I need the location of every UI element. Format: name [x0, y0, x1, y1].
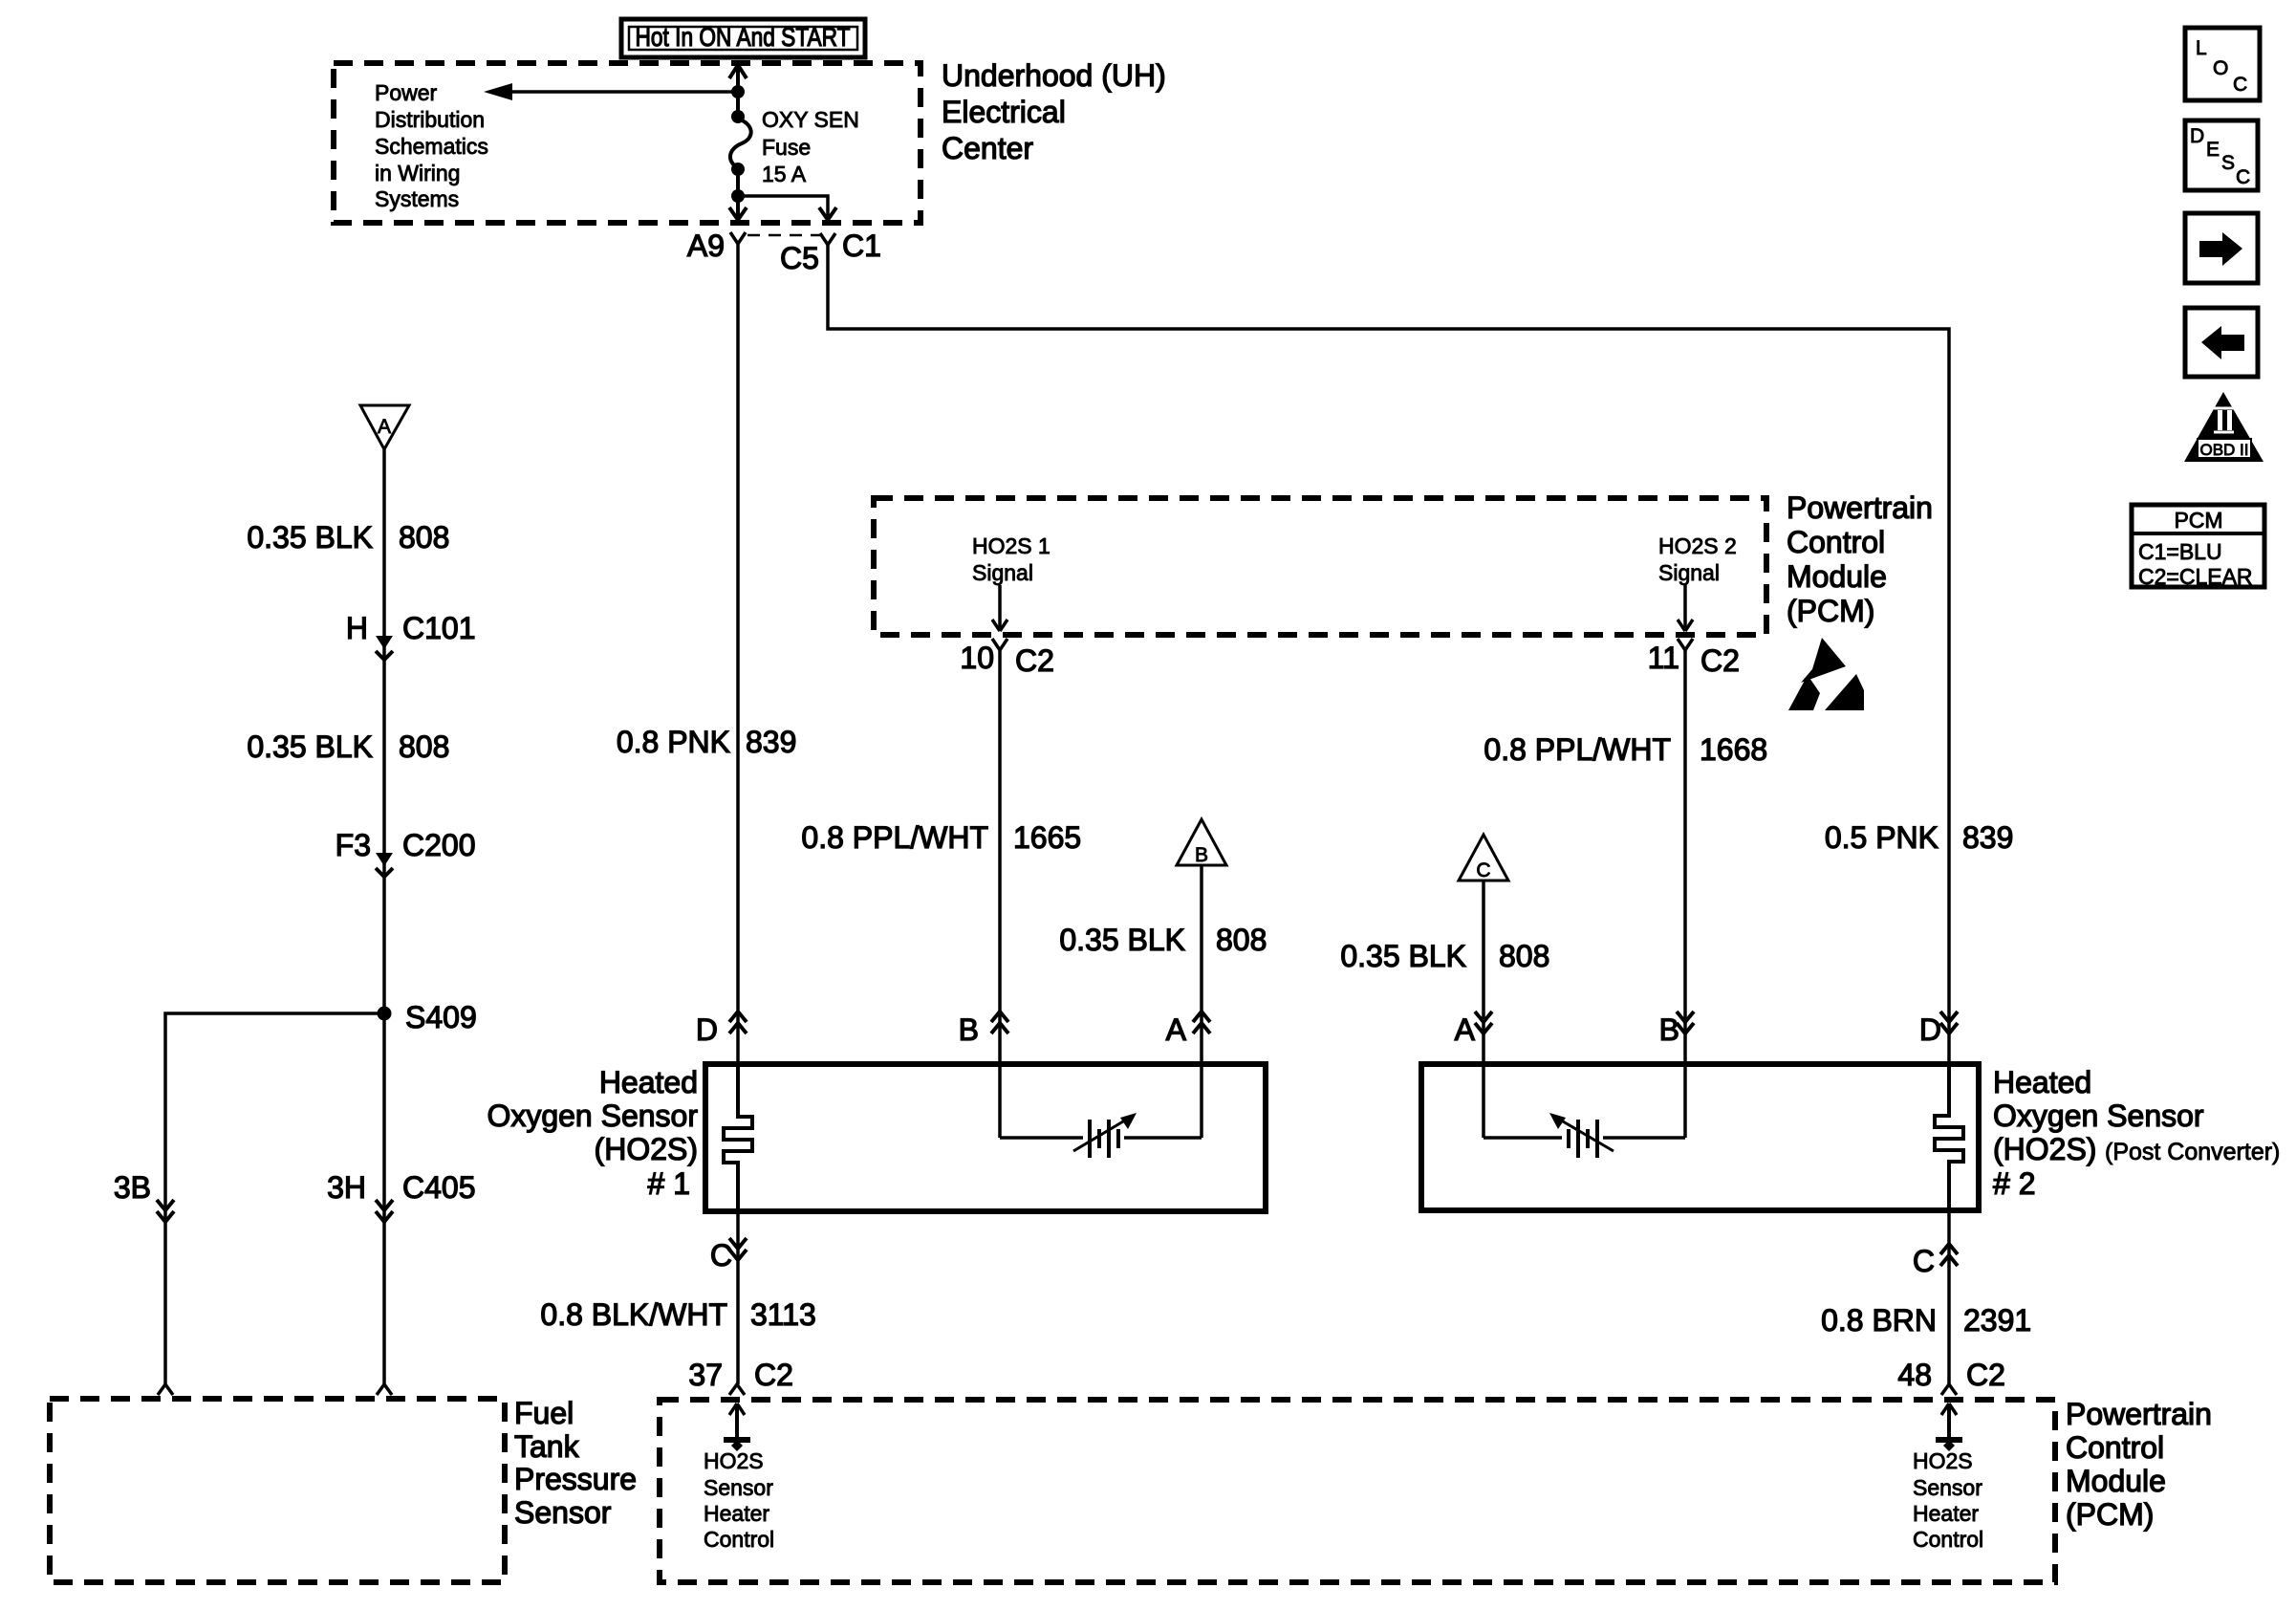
svg-text:C: C — [710, 1238, 732, 1273]
connector C1 (Y symbol) — [820, 233, 835, 245]
svg-text:B: B — [959, 1012, 979, 1047]
svg-text:Sensor: Sensor — [704, 1475, 773, 1500]
PCM internal: HO2S heater control driver (left) — [724, 1403, 750, 1451]
svg-text:OXY SEN: OXY SEN — [762, 107, 859, 132]
svg-text:C: C — [1913, 1244, 1935, 1278]
svg-text:Heated: Heated — [1993, 1065, 2091, 1099]
label: Powertrain Control Module (PCM) top right — [1787, 490, 1933, 628]
sidebar icon: LOC box — [2185, 28, 2260, 100]
heater element in HO2S#2 — [1935, 1064, 1963, 1210]
svg-text:Control: Control — [2066, 1430, 2164, 1465]
svg-text:L: L — [2196, 37, 2207, 59]
svg-text:Control: Control — [704, 1527, 774, 1552]
Powertrain Control Module (PCM) top dashed box — [874, 498, 1766, 635]
ESD sensitive device warning symbol — [1788, 638, 1864, 710]
svg-text:Pressure: Pressure — [514, 1462, 637, 1496]
svg-text:C101: C101 — [402, 611, 476, 645]
svg-text:Oxygen Sensor: Oxygen Sensor — [487, 1099, 698, 1133]
svg-text:A: A — [1166, 1012, 1187, 1047]
svg-text:(Post Converter): (Post Converter) — [2105, 1139, 2280, 1165]
svg-text:C1=BLU: C1=BLU — [2138, 539, 2222, 564]
svg-text:37: 37 — [688, 1358, 723, 1392]
svg-text:1665: 1665 — [1013, 820, 1081, 855]
svg-text:C: C — [2233, 74, 2247, 96]
off-page triangle C — [1459, 835, 1508, 881]
svg-text:Heater: Heater — [704, 1501, 769, 1526]
svg-text:48: 48 — [1897, 1358, 1932, 1392]
svg-text:Control: Control — [1787, 525, 1885, 559]
splice S409 — [378, 1000, 477, 1034]
label: Heated Oxygen Sensor (HO2S) (Post Converter) # 2 — [1993, 1065, 2280, 1201]
arrow: HO2S 2 Signal down — [1683, 585, 1687, 628]
svg-text:Fuel: Fuel — [514, 1396, 574, 1430]
svg-text:C5: C5 — [780, 241, 819, 275]
svg-text:0.35 BLK: 0.35 BLK — [247, 520, 373, 555]
svg-text:B: B — [1659, 1012, 1679, 1047]
svg-text:2391: 2391 — [1963, 1303, 2031, 1338]
label: 0.8 PPL/WHT 1668 — [1484, 732, 1767, 767]
label: Fuel Tank Pressure Sensor — [514, 1396, 637, 1530]
svg-text:Fuse: Fuse — [762, 135, 811, 160]
svg-text:S409: S409 — [405, 1000, 477, 1034]
label: 0.5 PNK 839 — [1825, 820, 2014, 855]
svg-text:C2: C2 — [754, 1358, 793, 1392]
arrowhead down at C1 — [819, 207, 836, 220]
svg-text:808: 808 — [1216, 923, 1267, 957]
sidebar icon: DESC box — [2185, 120, 2258, 190]
svg-text:S: S — [2221, 152, 2235, 174]
svg-text:Sensor: Sensor — [514, 1495, 612, 1530]
svg-text:0.8 PPL/WHT: 0.8 PPL/WHT — [1484, 732, 1671, 767]
label: Heated Oxygen Sensor (HO2S) # 1 — [487, 1065, 698, 1201]
connector F3 C200 (inline arrow) — [336, 828, 476, 877]
svg-text:Heated: Heated — [599, 1065, 698, 1099]
svg-text:C: C — [2236, 166, 2250, 188]
svg-text:HO2S 1: HO2S 1 — [972, 533, 1051, 558]
pin A chevrons (HO2S#2) — [1455, 1012, 1492, 1047]
heater element in HO2S#1 — [724, 1064, 752, 1211]
svg-text:3H: 3H — [327, 1170, 366, 1205]
label: 0.35 BLK 808 (upper left) — [247, 520, 449, 555]
label: HO2S Sensor Heater Control (left) — [704, 1448, 774, 1552]
arrowhead up at UH box top — [729, 65, 747, 78]
wire: feed from Hot In ON And START into UHEC — [736, 65, 740, 116]
label: HO2S 2 Signal — [1658, 533, 1737, 585]
svg-text:839: 839 — [746, 725, 796, 759]
svg-text:PCM: PCM — [2174, 508, 2222, 533]
svg-text:HO2S: HO2S — [1913, 1448, 1973, 1473]
svg-text:Power: Power — [375, 80, 438, 105]
svg-text:B: B — [1195, 844, 1208, 866]
svg-text:0.5 PNK: 0.5 PNK — [1825, 820, 1939, 855]
svg-text:0.35 BLK: 0.35 BLK — [1340, 939, 1466, 973]
svg-text:in Wiring: in Wiring — [375, 161, 460, 185]
pin B chevrons (HO2S#2) — [1659, 1012, 1694, 1047]
svg-text:D: D — [1919, 1012, 1941, 1047]
svg-text:15 A: 15 A — [762, 162, 807, 186]
label: HO2S Sensor Heater Control (right) — [1913, 1448, 1983, 1552]
svg-text:HO2S: HO2S — [704, 1448, 764, 1473]
arrow: HO2S 1 Signal down — [998, 585, 1002, 628]
svg-text:0.8 BRN: 0.8 BRN — [1821, 1303, 1937, 1338]
pin 11 C2 (Y symbol) — [1678, 639, 1693, 650]
wire 1668 PPL/WHT: pin 11 down to HO2S#2 pin B — [1683, 650, 1687, 1138]
arrowhead down at A9 — [729, 207, 747, 220]
svg-text:C200: C200 — [402, 828, 476, 862]
svg-text:O: O — [2213, 57, 2228, 79]
svg-text:(PCM): (PCM) — [2066, 1497, 2154, 1532]
svg-text:D: D — [696, 1012, 718, 1047]
svg-text:Tank: Tank — [514, 1429, 580, 1464]
svg-text:C2=CLEAR: C2=CLEAR — [2138, 564, 2253, 589]
connector A9 (Y symbol) — [730, 232, 746, 244]
PCM internal: HO2S heater control driver (right) — [1936, 1403, 1962, 1451]
svg-text:Underhood (UH): Underhood (UH) — [942, 58, 1166, 93]
svg-text:E: E — [2206, 139, 2220, 161]
wire end Y at fuel tank (right) — [377, 1384, 392, 1395]
svg-text:D: D — [2190, 125, 2204, 147]
pin C chevrons (HO2S#2, up) — [1913, 1244, 1958, 1278]
svg-text:808: 808 — [1499, 939, 1549, 973]
svg-text:C2: C2 — [1015, 643, 1054, 678]
svg-text:3B: 3B — [114, 1170, 151, 1205]
svg-text:0.8 BLK/WHT: 0.8 BLK/WHT — [540, 1297, 727, 1332]
svg-text:# 1: # 1 — [648, 1166, 690, 1201]
wire 839 PNK: C1 right and down to HO2S#2 pin D — [828, 245, 1949, 1064]
wire 3113 BLK/WHT: HO2S#1 pin C down to PCM pin 37 — [736, 1211, 740, 1384]
svg-text:H: H — [346, 611, 368, 645]
svg-text:Heater: Heater — [1913, 1501, 1979, 1526]
pin A chevrons (HO2S#1) — [1166, 1012, 1210, 1047]
svg-text:Powertrain: Powertrain — [1787, 490, 1933, 525]
svg-text:3113: 3113 — [750, 1297, 816, 1332]
label: 0.8 BRN 2391 — [1821, 1303, 2031, 1338]
pin D chevrons (HO2S#1) — [696, 1012, 747, 1047]
label: OXY SEN Fuse 15 A — [762, 107, 859, 186]
svg-text:808: 808 — [399, 520, 449, 555]
wire: branch to Power Distribution (arrow left) — [510, 90, 738, 94]
label: 0.35 BLK 808 (center-left) — [1059, 923, 1267, 957]
junction dot fuse output branch — [731, 189, 745, 203]
svg-text:C405: C405 — [402, 1170, 476, 1205]
svg-text:10: 10 — [960, 641, 994, 675]
svg-text:A: A — [1455, 1012, 1476, 1047]
svg-text:839: 839 — [1962, 820, 2013, 855]
sense element (variable source) in HO2S#1 — [1000, 1113, 1202, 1158]
svg-text:A9: A9 — [687, 228, 725, 263]
wire 2391 BRN: HO2S#2 pin C down to PCM pin 48 — [1947, 1210, 1951, 1384]
svg-text:Distribution: Distribution — [375, 107, 485, 132]
svg-text:0.35 BLK: 0.35 BLK — [1059, 923, 1185, 957]
pin B chevrons (HO2S#1) — [959, 1012, 1008, 1047]
svg-text:(HO2S): (HO2S) — [595, 1132, 698, 1166]
wire 808 BLK: triangle C down to HO2S#2 pin A — [1482, 881, 1485, 1138]
wire 1665 PPL/WHT: pin 10 down to HO2S#1 pin B — [998, 650, 1002, 1138]
arrowhead left to power distribution — [484, 83, 512, 100]
connector 3H C405 chevrons — [327, 1170, 475, 1222]
svg-text:C2: C2 — [1700, 643, 1740, 678]
svg-text:(HO2S): (HO2S) — [1993, 1132, 2096, 1166]
sidebar icon: arrow left box — [2185, 308, 2258, 377]
svg-text:HO2S 2: HO2S 2 — [1658, 533, 1737, 558]
wire: fuse output down — [736, 169, 740, 218]
svg-text:Schematics: Schematics — [375, 134, 488, 159]
wire 808 BLK: triangle B down to HO2S#1 pin A — [1200, 865, 1203, 1138]
connector C5 dashed line — [747, 234, 820, 237]
label: Powertrain Control Module (PCM) bottom right — [2066, 1397, 2212, 1532]
pin 10 C2 (Y symbol) — [992, 639, 1007, 650]
sidebar: PCM connector legend table — [2132, 505, 2264, 589]
label: HO2S 1 Signal — [972, 533, 1051, 585]
pin 3B chevrons — [114, 1170, 174, 1222]
svg-text:Electrical: Electrical — [942, 95, 1066, 129]
svg-text:Powertrain: Powertrain — [2066, 1397, 2212, 1431]
svg-text:Signal: Signal — [1658, 560, 1720, 585]
connector H C101 (inline arrow) — [346, 611, 476, 660]
svg-text:Signal: Signal — [972, 560, 1033, 585]
note: Power Distribution Schematics in Wiring Systems — [375, 80, 488, 211]
pin 37 C2 (Y symbol) — [688, 1358, 793, 1395]
power feed box "Hot In ON And START" — [621, 19, 865, 57]
wire 839 PNK: A9 down to HO2S#1 pin D — [736, 244, 740, 1064]
svg-text:C1: C1 — [842, 228, 881, 263]
svg-text:C2: C2 — [1966, 1358, 2005, 1392]
svg-text:1668: 1668 — [1700, 732, 1767, 767]
junction dot at branch — [731, 85, 745, 98]
svg-text:Oxygen Sensor: Oxygen Sensor — [1993, 1099, 2204, 1133]
svg-text:Control: Control — [1913, 1527, 1983, 1552]
svg-text:C: C — [1476, 859, 1490, 881]
wire: branch to C1 — [738, 196, 828, 218]
wire 808 BLK: triangle A down to fuel tank pressure sensor — [382, 449, 386, 1384]
svg-text:Module: Module — [1787, 559, 1887, 594]
svg-text:Sensor: Sensor — [1913, 1475, 1982, 1500]
wire end Y at fuel tank (left) — [158, 1384, 173, 1395]
Underhood (UH) Electrical Center dashed box — [334, 63, 921, 223]
label: 0.35 BLK 808 (center-right) — [1340, 939, 1549, 973]
wire: S409 branch left and down — [165, 1013, 384, 1384]
pin D chevrons (HO2S#2) — [1919, 1012, 1958, 1047]
svg-text:(PCM): (PCM) — [1787, 594, 1874, 628]
Heated Oxygen Sensor HO2S #1 box — [705, 1064, 1266, 1211]
off-page triangle B — [1177, 819, 1226, 866]
label: 0.8 PPL/WHT 1665 — [801, 820, 1081, 855]
Heated Oxygen Sensor HO2S #2 box — [1421, 1064, 1979, 1210]
pin 48 C2 (Y symbol) — [1897, 1358, 2005, 1395]
off-page triangle A — [360, 405, 409, 449]
svg-text:A: A — [378, 416, 391, 438]
label: 0.8 BLK/WHT 3113 — [540, 1297, 815, 1332]
svg-text:Systems: Systems — [375, 186, 459, 211]
Powertrain Control Module (PCM) bottom dashed box — [660, 1400, 2055, 1582]
pin C chevrons (HO2S#1, down) — [710, 1238, 747, 1273]
fuse OXY SEN 15 A — [730, 110, 751, 176]
label: 0.35 BLK 808 (mid left) — [247, 729, 449, 764]
svg-text:0.35 BLK: 0.35 BLK — [247, 729, 373, 764]
svg-text:Hot In ON And START: Hot In ON And START — [636, 22, 851, 52]
sidebar icon: OBD II triangle — [2184, 392, 2264, 462]
Fuel Tank Pressure Sensor dashed box — [50, 1399, 505, 1582]
svg-text:0.8 PNK: 0.8 PNK — [617, 725, 730, 759]
svg-text:F3: F3 — [336, 828, 371, 862]
sense element (variable source) in HO2S#2 — [1484, 1113, 1685, 1158]
svg-text:OBD II: OBD II — [2199, 441, 2248, 459]
label: 0.8 PNK 839 — [617, 725, 797, 759]
svg-text:11: 11 — [1648, 641, 1679, 675]
svg-text:Center: Center — [942, 131, 1033, 165]
svg-text:# 2: # 2 — [1993, 1166, 2035, 1201]
svg-text:808: 808 — [399, 729, 449, 764]
label: Underhood (UH) Electrical Center — [942, 58, 1166, 165]
svg-text:Module: Module — [2066, 1464, 2166, 1498]
svg-text:0.8 PPL/WHT: 0.8 PPL/WHT — [801, 820, 988, 855]
sidebar icon: arrow right box — [2185, 213, 2258, 283]
